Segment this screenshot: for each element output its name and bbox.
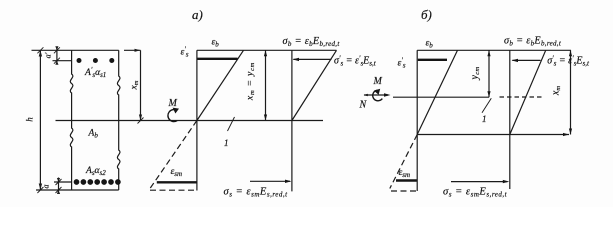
svg-text:a′: a′	[44, 52, 53, 58]
svg-text:M: M	[373, 76, 383, 87]
svg-text:а): а)	[192, 7, 203, 22]
svg-text:1: 1	[224, 138, 229, 148]
svg-text:h: h	[25, 117, 35, 122]
svg-text:1: 1	[482, 114, 487, 124]
svg-text:б): б)	[421, 7, 432, 22]
svg-text:a: a	[42, 185, 51, 189]
svg-text:M: M	[168, 98, 178, 109]
svg-text:N: N	[359, 100, 368, 111]
